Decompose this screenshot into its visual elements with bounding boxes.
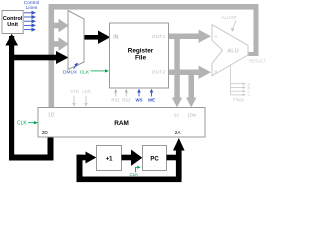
- svg-text:CLK: CLK: [80, 69, 90, 75]
- mux DMUX: [68, 11, 84, 70]
- label: Control Lines: [24, 0, 39, 11]
- svg-text:2A: 2A: [175, 130, 182, 135]
- wire: vertical up to RAM 2A with arrow: [173, 138, 185, 179]
- svg-text:IN: IN: [113, 34, 118, 40]
- svg-text:Unit: Unit: [7, 22, 18, 28]
- incrementer +1: [97, 146, 122, 171]
- wire: result bus branch down to RAM 1Din: [186, 70, 197, 107]
- wire: PC output to right vertical: [167, 155, 182, 161]
- svg-text:PC: PC: [150, 156, 159, 162]
- wires: 5 blue control line arrows: [24, 11, 36, 32]
- svg-text:Lines: Lines: [26, 5, 38, 11]
- svg-text:RS2: RS2: [122, 98, 131, 103]
- svg-text:1D: 1D: [48, 113, 55, 119]
- svg-text:OUT1: OUT1: [152, 34, 166, 39]
- svg-text:STR: STR: [70, 89, 79, 94]
- svg-text:1A: 1A: [174, 112, 179, 117]
- wire: result bus right vertical to ALU output: [248, 4, 258, 56]
- svg-text:DMUX: DMUX: [63, 69, 78, 75]
- svg-text:WE: WE: [148, 98, 155, 103]
- wire: MUX output arrow to Register File IN: [84, 31, 110, 44]
- wire: black arrow into MUX input 3: [11, 51, 69, 64]
- wire: black bottom horizontal from RAM 2D loop: [9, 155, 54, 161]
- svg-text:B: B: [214, 70, 217, 76]
- control unit U1: [2, 11, 23, 34]
- svg-text:CLK: CLK: [130, 172, 139, 177]
- RAM U4: [38, 108, 205, 138]
- wire: +1 to PC arrow: [122, 150, 143, 166]
- wire: branch from OUT1 down to RAM 1A: [172, 36, 183, 107]
- svg-text:Flags: Flags: [233, 97, 245, 102]
- svg-text:2D: 2D: [42, 130, 49, 135]
- svg-text:RESULT: RESULT: [249, 58, 266, 63]
- wire: black arrow up into Control Unit: [5, 34, 18, 46]
- wires: ALU flag outputs Z N C V: [231, 65, 246, 96]
- svg-text:LDR: LDR: [82, 89, 91, 94]
- wire: left gray vertical bus from top bus to RAM 1D: [49, 4, 55, 108]
- wire: loop left vertical: [77, 155, 83, 179]
- svg-text:ALU: ALU: [227, 49, 239, 55]
- label: STR LDR control pins into RAM: [70, 89, 91, 107]
- label: ALUOP with arrow: [222, 15, 237, 32]
- label: RESULT: [249, 58, 266, 63]
- svg-text:WS: WS: [135, 98, 142, 103]
- wire: OUT2 to ALU B: [169, 66, 212, 79]
- svg-text:CLK: CLK: [17, 121, 27, 127]
- PC register: [143, 146, 167, 171]
- wire: PC feedback bottom loop: [77, 177, 182, 183]
- svg-text:RS1: RS1: [111, 98, 120, 103]
- svg-text:File: File: [135, 55, 146, 62]
- wire: gray arrow into MUX input 2: [51, 37, 69, 51]
- register file U2: [110, 23, 169, 88]
- svg-text:OUT2: OUT2: [152, 69, 166, 74]
- svg-text:ALUOP: ALUOP: [222, 15, 237, 20]
- svg-text:+1: +1: [106, 156, 114, 162]
- wire: RAM 2D vertical drop: [48, 137, 54, 161]
- wire: result bus top horizontal: [49, 4, 259, 10]
- ALU U3: [212, 25, 248, 76]
- register file bottom control pins RS1 RS2 WS WE: [114, 89, 128, 97]
- wire: gray arrow into MUX input 1: [51, 19, 69, 33]
- svg-text:RAM: RAM: [114, 120, 129, 127]
- wire: black vertical instruction bus on left: [9, 36, 14, 161]
- label: CLK (RAM clock): [17, 121, 38, 127]
- wire: OUT1 to ALU A: [169, 30, 212, 43]
- svg-text:Control: Control: [3, 16, 23, 22]
- label: CLK (PC clock): [130, 166, 141, 177]
- svg-text:Register: Register: [128, 48, 154, 55]
- label: CLK (register file clock): [80, 69, 109, 75]
- wire: arrow into +1: [77, 152, 97, 164]
- svg-text:1Din: 1Din: [187, 112, 197, 117]
- label: DMUX: [63, 63, 78, 76]
